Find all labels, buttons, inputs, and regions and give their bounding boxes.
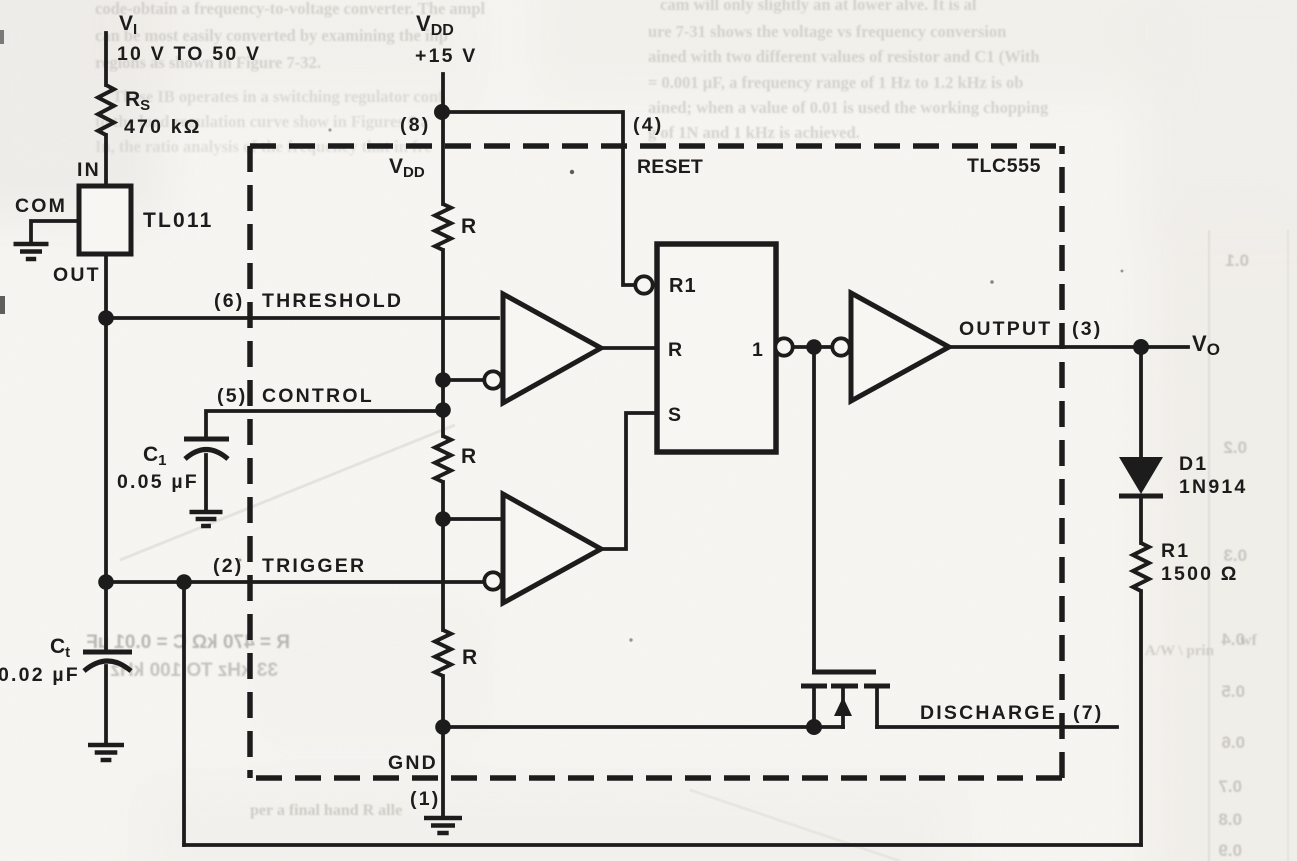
net label RESET (637, 156, 703, 178)
VI value label (117, 43, 261, 65)
wire VDD (441, 74, 445, 204)
latch pin label R1 (669, 275, 697, 297)
capacitor Ct label (50, 635, 70, 661)
svg-text:wf: wf (1240, 632, 1258, 649)
bubble comp2 inverting (484, 572, 501, 589)
ground Ct (88, 745, 124, 760)
wire VO to D1 (1139, 347, 1143, 458)
svg-text:10 V TO 50 V: 10 V TO 50 V (117, 43, 261, 65)
junction threshold-left (98, 310, 114, 326)
svg-text:GND: GND (388, 752, 438, 774)
svg-text:+15 V: +15 V (415, 45, 478, 67)
svg-text:ure 7-31 shows the voltage vs: ure 7-31 shows the voltage vs frequency … (648, 22, 1006, 41)
resistor R1 value (1161, 563, 1239, 585)
svg-text:33 kHz TO 100 kHz: 33 kHz TO 100 kHz (110, 660, 278, 681)
pin label (3) (1072, 318, 1102, 340)
svg-text:IN: IN (77, 159, 101, 181)
svg-text:OUT: OUT (53, 264, 101, 286)
latch U4 box (657, 244, 776, 452)
net label GND (388, 752, 438, 774)
svg-text:per a final hand R alle: per a final hand R alle (250, 802, 402, 819)
svg-text:DISCHARGE: DISCHARGE (920, 702, 1057, 724)
net label THRESHOLD (262, 290, 403, 312)
junction comp1 minus (435, 372, 451, 388)
latch pin label R (668, 339, 684, 361)
node VDD label (416, 11, 454, 39)
svg-text:R: R (461, 445, 478, 468)
resistor R top (435, 204, 451, 250)
svg-text:0.2: 0.2 (1223, 438, 1247, 457)
bubble comp1 inverting (484, 371, 501, 388)
svg-text:CONTROL: CONTROL (262, 385, 374, 407)
svg-text:(2): (2) (213, 555, 243, 577)
wire C1 to ground (204, 455, 208, 511)
svg-text:0.8: 0.8 (1218, 810, 1242, 829)
pin label (7) (1073, 702, 1103, 724)
svg-text:0.7: 0.7 (1218, 777, 1242, 796)
svg-text:(4): (4) (633, 114, 663, 136)
diode D1 label (1179, 453, 1208, 475)
transistor Q1 gate plate (812, 670, 876, 675)
svg-text:TL011: TL011 (143, 209, 214, 232)
pin label (4) (633, 114, 663, 136)
svg-text:RESET: RESET (637, 156, 703, 178)
wire chain 3 to gnd (441, 676, 445, 817)
wire RESET (442, 112, 636, 285)
svg-text:(3): (3) (1072, 318, 1102, 340)
net label TRIGGER (262, 555, 366, 577)
svg-text:TRIGGER: TRIGGER (262, 555, 366, 577)
junction trigger-feedback (176, 574, 192, 590)
wire COM (31, 221, 79, 243)
wire feedback left (182, 582, 186, 845)
svg-text:0.05 µF: 0.05 µF (117, 471, 199, 493)
pin label (2) (213, 555, 243, 577)
wire feedback bottom (184, 843, 1141, 847)
svg-text:ained with two different value: ained with two different values of resis… (648, 47, 1040, 66)
wire OUTPUT (949, 345, 1188, 349)
svg-text:(1): (1) (410, 788, 440, 810)
junction trigger-left (98, 574, 114, 590)
capacitor C1 value (117, 471, 199, 493)
junction latch output (806, 339, 822, 355)
svg-text:0.9: 0.9 (1218, 841, 1242, 860)
svg-text:THRESHOLD: THRESHOLD (262, 290, 403, 312)
wire VI to RS (104, 33, 108, 85)
wire chain 1 (441, 250, 445, 436)
svg-text:R1: R1 (669, 275, 697, 297)
wire feedback right (1139, 591, 1143, 845)
faint graph bleed right (1209, 230, 1288, 861)
pin label IN (77, 159, 101, 181)
bubble latch R1 input (635, 276, 652, 293)
junction comp2 plus (435, 511, 451, 527)
wire THRESHOLD (106, 316, 498, 320)
svg-text:470 kΩ: 470 kΩ (124, 116, 202, 138)
faint bleed text top-right (648, 0, 1049, 142)
transistor Q1 body arrow (834, 697, 852, 716)
wire Ct to ground (104, 666, 108, 744)
resistor RS label (125, 88, 150, 114)
wire CONTROL (206, 411, 443, 439)
diode D1 value (1179, 476, 1247, 498)
svg-text:1N914: 1N914 (1179, 476, 1247, 498)
resistor R mid (435, 436, 451, 482)
svg-text:These IB operates in a switchi: These IB operates in a switching regulat… (112, 87, 444, 106)
svg-text:1: 1 (752, 339, 765, 361)
faint mirrored text bottom-left (86, 632, 290, 681)
latch pin label S (668, 404, 683, 426)
svg-text:R: R (462, 646, 479, 669)
svg-text:COM: COM (15, 195, 67, 217)
ground GND pin (424, 818, 462, 833)
wire gnd rail (443, 725, 843, 729)
IC label TLC555 (967, 155, 1041, 177)
wire OUT rail (104, 254, 108, 582)
IC boundary TLC555 dashed box (250, 146, 1062, 778)
svg-text:cam will only slightly an at l: cam will only slightly an at lower alve.… (660, 0, 977, 14)
svg-text:R: R (668, 339, 684, 361)
bubble latch output (775, 338, 792, 355)
wire TRIGGER (106, 580, 484, 584)
ground COM (14, 244, 49, 259)
pin label COM (15, 195, 67, 217)
svg-text:= 0.001 µF, a frequency range: = 0.001 µF, a frequency range of 1 Hz to… (648, 73, 1023, 92)
pin label (6) (214, 290, 244, 312)
junction source-gnd (806, 719, 822, 735)
svg-text:0.1: 0.1 (1225, 251, 1249, 270)
capacitor Ct plates (83, 652, 132, 671)
resistor RS (98, 85, 114, 135)
pin label (5) (217, 385, 247, 407)
transistor Q1 body lead (841, 686, 845, 727)
ground C1 (190, 512, 223, 526)
junction VO (1133, 339, 1149, 355)
svg-text:0.5: 0.5 (1221, 682, 1245, 701)
transistor Q1 channel (801, 684, 890, 689)
wire chain 2 (441, 482, 445, 630)
net label CONTROL (262, 385, 374, 407)
transistor Q1 source lead (812, 686, 816, 727)
buffer U5 triangle (851, 293, 949, 401)
svg-text:0.02 µF: 0.02 µF (0, 664, 80, 686)
net label OUTPUT (959, 318, 1052, 340)
wire DISCHARGE (877, 725, 1117, 729)
svg-text:D1: D1 (1179, 453, 1208, 475)
resistor R bottom label (462, 646, 479, 669)
diode D1 triangle (1119, 457, 1163, 494)
svg-text:(7): (7) (1073, 702, 1103, 724)
wire RS to TL011 IN (104, 135, 108, 186)
node VI label (119, 12, 137, 38)
resistor R top label (461, 215, 478, 238)
latch pin label 1 (752, 339, 765, 361)
svg-text:0.6: 0.6 (1221, 733, 1245, 752)
svg-text:R1: R1 (1161, 540, 1190, 562)
wire comp1 out (601, 346, 657, 350)
wire comp2 plus (443, 517, 503, 521)
VDD value label (415, 45, 478, 67)
net label DISCHARGE (920, 702, 1057, 724)
pin label (8) (400, 114, 430, 136)
transistor Q1 drain lead (875, 686, 879, 727)
svg-text:R: R (461, 215, 478, 238)
wire latch output to buffer (776, 345, 851, 349)
svg-text:(6): (6) (214, 290, 244, 312)
resistor R1 (1133, 543, 1149, 591)
resistor RS value (124, 116, 202, 138)
svg-text:(5): (5) (217, 385, 247, 407)
wire latch to gate (812, 347, 816, 671)
junction VDD pin8 (434, 104, 450, 120)
svg-text:TLC555: TLC555 (967, 155, 1041, 177)
node VO label (1192, 331, 1220, 359)
wire rail to Ct (104, 582, 108, 652)
pin label OUT (53, 264, 101, 286)
wire comp2 out to S (601, 413, 657, 549)
regulator U1 TL011 box (79, 186, 131, 254)
faint bleed text top-left (95, 0, 486, 156)
junction control (435, 402, 451, 418)
diode D1 cathode bar (1119, 494, 1163, 499)
svg-text:A/W \ prin: A/W \ prin (1145, 643, 1215, 659)
svg-text:ained; when a value of 0.01 is: ained; when a value of 0.01 is used the … (648, 98, 1049, 117)
op-amp comparator lower (503, 494, 601, 603)
resistor R bottom (435, 630, 451, 676)
svg-text:S: S (668, 404, 683, 426)
svg-text:1500 Ω: 1500 Ω (1161, 563, 1239, 585)
net label VDD inside (389, 155, 425, 181)
capacitor C1 label (143, 443, 167, 469)
junction gnd-discharge (435, 719, 451, 735)
regulator U1 label TL011 (143, 209, 214, 232)
capacitor Ct value (0, 664, 80, 686)
bubble buffer input (832, 338, 849, 355)
op-amp comparator upper (503, 294, 601, 403)
svg-text:g of 1N and 1 kHz is achieved: g of 1N and 1 kHz is achieved. (648, 123, 860, 142)
wire D1 to R1 (1139, 496, 1143, 543)
resistor R mid label (461, 445, 478, 468)
pin label (1) (410, 788, 440, 810)
capacitor C1 plates (184, 439, 229, 459)
wire comp1 minus (443, 378, 485, 382)
svg-text:OUTPUT: OUTPUT (959, 318, 1052, 340)
resistor R1 label (1161, 540, 1190, 562)
svg-text:(8): (8) (400, 114, 430, 136)
